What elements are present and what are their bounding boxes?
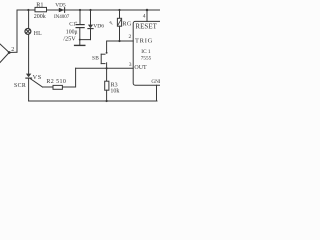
svg-text:VD5: VD5 <box>55 2 66 8</box>
diode VD5 IN4007 <box>54 2 70 20</box>
wire top rail <box>17 10 160 52</box>
wire pin 4 RESET <box>146 10 148 21</box>
svg-text:3: 3 <box>129 62 132 68</box>
resistor R3 <box>105 68 120 102</box>
svg-text:R3: R3 <box>111 82 118 88</box>
wire bottom rail <box>29 100 157 102</box>
svg-text:+: + <box>75 21 78 26</box>
svg-text:/25V: /25V <box>63 35 76 42</box>
svg-text:7555: 7555 <box>141 55 152 61</box>
svg-text:10k: 10k <box>110 89 119 95</box>
wire OUT rail (pin 3) <box>76 67 134 69</box>
svg-text:SB: SB <box>92 56 99 62</box>
svg-text:TRIG: TRIG <box>135 37 153 44</box>
svg-text:HL: HL <box>34 31 42 37</box>
node 2 (plug pin 2) <box>0 44 17 63</box>
svg-text:VS: VS <box>33 74 42 81</box>
wire lamp to SCR <box>28 34 30 73</box>
push button SB <box>92 52 108 68</box>
svg-text:4: 4 <box>143 13 146 19</box>
resistor RG <box>117 9 132 41</box>
svg-text:IN4007: IN4007 <box>54 15 70 20</box>
ground <box>75 44 85 46</box>
svg-text:R2 510: R2 510 <box>46 79 66 85</box>
wire SCR cathode down <box>28 78 30 101</box>
small mark <box>110 22 113 25</box>
wire OUT to R2 <box>43 68 76 87</box>
svg-text:2: 2 <box>11 47 14 53</box>
diode VD6 <box>88 9 104 40</box>
wire TRIG (pin 2) <box>107 41 134 52</box>
thyristor VS (SCR) <box>14 74 43 89</box>
resistor R1 <box>34 1 47 19</box>
wire lamp branch <box>28 10 30 29</box>
lamp HL <box>25 28 42 37</box>
wire pin 1 GND <box>156 85 158 101</box>
capacitor C1 <box>63 9 84 42</box>
svg-text:R1: R1 <box>36 1 43 8</box>
svg-text:SCR: SCR <box>14 83 26 89</box>
svg-text:VD6: VD6 <box>93 23 104 29</box>
svg-text:OUT: OUT <box>134 65 147 71</box>
svg-text:RESET: RESET <box>135 23 157 30</box>
svg-text:GND: GND <box>151 79 160 85</box>
resistor R2 510 <box>46 79 66 90</box>
svg-text:200k: 200k <box>34 14 46 20</box>
svg-text:IC 1: IC 1 <box>141 49 151 55</box>
svg-text:RG: RG <box>122 20 132 27</box>
svg-text:2: 2 <box>129 34 132 40</box>
wire C1/VD6 common to ground <box>80 40 91 46</box>
IC U1: IC1 7555 timer box <box>133 21 167 85</box>
